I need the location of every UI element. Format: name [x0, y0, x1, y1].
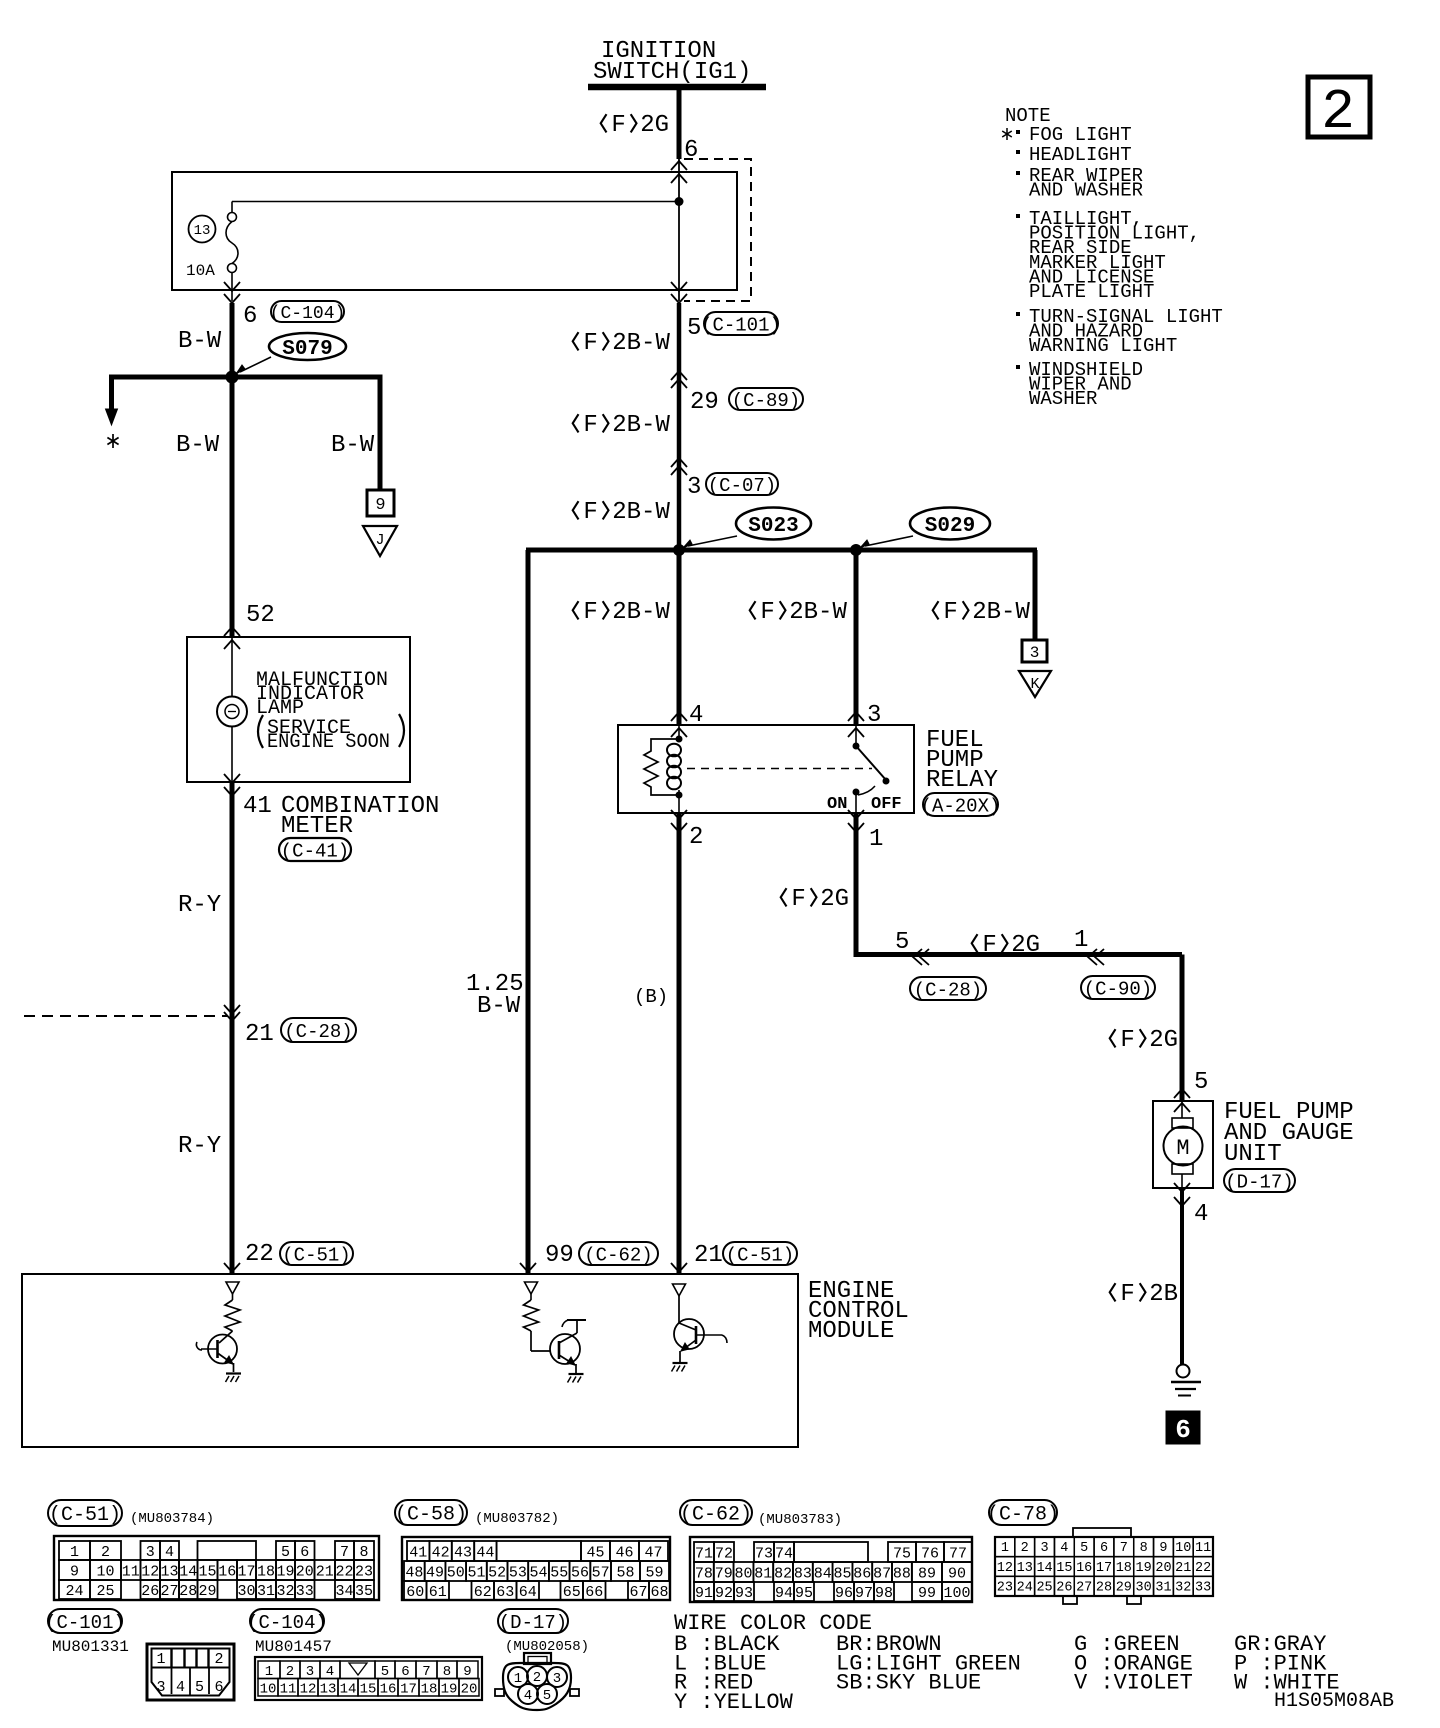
- svg-text:54: 54: [530, 1564, 548, 1581]
- svg-text:WARNING LIGHT: WARNING LIGHT: [1029, 335, 1177, 357]
- svg-text:12: 12: [300, 1681, 317, 1697]
- svg-text:5: 5: [1194, 1069, 1208, 1096]
- svg-text:57: 57: [592, 1564, 610, 1581]
- svg-text:5: 5: [543, 1688, 551, 1704]
- svg-text:22: 22: [245, 1241, 274, 1268]
- svg-text:15: 15: [198, 1563, 216, 1580]
- svg-text:F: F: [583, 499, 597, 526]
- svg-text:3: 3: [1030, 644, 1040, 662]
- svg-text:F: F: [791, 886, 805, 913]
- svg-text:5: 5: [895, 929, 909, 956]
- svg-text:1: 1: [1074, 927, 1088, 954]
- svg-text:B-W: B-W: [477, 993, 521, 1020]
- svg-text:20: 20: [461, 1681, 478, 1697]
- svg-text:ON: ON: [827, 795, 847, 814]
- svg-text:15: 15: [1056, 1561, 1072, 1576]
- svg-text:5: 5: [195, 1679, 204, 1696]
- svg-text:23: 23: [997, 1581, 1013, 1596]
- svg-text:71: 71: [695, 1545, 713, 1562]
- svg-text:2B-W: 2B-W: [972, 599, 1030, 626]
- svg-text:21: 21: [1175, 1561, 1191, 1576]
- svg-text:62: 62: [474, 1584, 492, 1601]
- svg-text:F: F: [611, 112, 625, 139]
- svg-text:2: 2: [1021, 1541, 1029, 1556]
- svg-text:67: 67: [629, 1584, 647, 1601]
- svg-text:99: 99: [545, 1242, 574, 1269]
- svg-text:42: 42: [432, 1544, 450, 1561]
- svg-text:91: 91: [695, 1585, 713, 1602]
- svg-text:AND WASHER: AND WASHER: [1029, 180, 1143, 202]
- svg-text:(C-90): (C-90): [1084, 978, 1152, 1000]
- svg-text:25: 25: [1036, 1581, 1052, 1596]
- svg-text:15: 15: [360, 1681, 377, 1697]
- svg-text:99: 99: [918, 1585, 936, 1602]
- svg-text:3: 3: [687, 474, 701, 501]
- svg-text:10: 10: [96, 1563, 114, 1580]
- svg-text:31: 31: [1155, 1581, 1171, 1596]
- svg-text:65: 65: [563, 1584, 581, 1601]
- svg-text:R-Y: R-Y: [178, 1133, 221, 1160]
- svg-text:(C-58): (C-58): [395, 1504, 467, 1527]
- svg-text:32: 32: [276, 1583, 294, 1600]
- svg-text:10: 10: [1175, 1541, 1191, 1556]
- svg-text:19: 19: [276, 1563, 294, 1580]
- svg-text:(MU803782): (MU803782): [475, 1511, 559, 1527]
- svg-text:(C-101): (C-101): [45, 1612, 125, 1634]
- svg-text:27: 27: [1076, 1581, 1092, 1596]
- svg-text:33: 33: [1195, 1581, 1211, 1596]
- svg-text:96: 96: [835, 1585, 853, 1602]
- svg-text:18: 18: [421, 1681, 438, 1697]
- svg-text:10: 10: [260, 1681, 277, 1697]
- svg-text:2: 2: [1321, 80, 1355, 144]
- svg-text:(MU803783): (MU803783): [758, 1512, 842, 1528]
- svg-text:2G: 2G: [1011, 932, 1040, 959]
- svg-text:11: 11: [1195, 1541, 1211, 1556]
- svg-text:30: 30: [1136, 1581, 1152, 1596]
- svg-text:SB:SKY BLUE: SB:SKY BLUE: [836, 1671, 981, 1696]
- svg-text:6: 6: [1100, 1541, 1108, 1556]
- svg-text:F: F: [760, 599, 774, 626]
- svg-text:OFF: OFF: [871, 795, 902, 814]
- svg-text:FOG LIGHT: FOG LIGHT: [1029, 124, 1132, 146]
- svg-text:6: 6: [1175, 1415, 1191, 1445]
- svg-text:97: 97: [855, 1585, 873, 1602]
- svg-text:48: 48: [405, 1564, 423, 1581]
- svg-text:68: 68: [650, 1584, 668, 1601]
- svg-text:28: 28: [179, 1583, 197, 1600]
- svg-text:14: 14: [1036, 1561, 1052, 1576]
- svg-text:14: 14: [179, 1563, 197, 1580]
- svg-text:90: 90: [948, 1565, 966, 1582]
- svg-text:1: 1: [514, 1671, 522, 1687]
- svg-text:4: 4: [176, 1679, 185, 1696]
- svg-text:59: 59: [645, 1564, 663, 1581]
- svg-text:2: 2: [286, 1664, 294, 1680]
- svg-text:3: 3: [156, 1679, 165, 1696]
- svg-text:2: 2: [101, 1544, 110, 1561]
- svg-text:80: 80: [734, 1565, 752, 1582]
- svg-text:13: 13: [1017, 1561, 1033, 1576]
- svg-text:9: 9: [463, 1664, 471, 1680]
- svg-text:(C-62): (C-62): [584, 1244, 652, 1266]
- svg-text:23: 23: [355, 1563, 373, 1580]
- svg-text:S023: S023: [748, 515, 798, 538]
- svg-text:92: 92: [715, 1585, 733, 1602]
- svg-text:46: 46: [615, 1544, 633, 1561]
- svg-text:3: 3: [1040, 1541, 1048, 1556]
- svg-text:22: 22: [335, 1563, 353, 1580]
- svg-text:7: 7: [422, 1664, 430, 1680]
- svg-text:B-W: B-W: [331, 432, 375, 459]
- svg-text:29: 29: [690, 389, 719, 416]
- svg-text:87: 87: [873, 1565, 891, 1582]
- svg-text:(C-101): (C-101): [701, 314, 781, 336]
- svg-text:8: 8: [359, 1544, 368, 1561]
- svg-text:11: 11: [280, 1681, 297, 1697]
- svg-text:18: 18: [257, 1563, 275, 1580]
- svg-text:F: F: [982, 932, 996, 959]
- svg-text:56: 56: [571, 1564, 589, 1581]
- svg-text:77: 77: [949, 1545, 967, 1562]
- svg-text:52: 52: [246, 602, 275, 629]
- svg-text:33: 33: [296, 1583, 314, 1600]
- svg-text:(D-17): (D-17): [1225, 1171, 1293, 1193]
- svg-text:F: F: [583, 330, 597, 357]
- svg-text:METER: METER: [281, 813, 353, 840]
- svg-text:24: 24: [65, 1583, 83, 1600]
- svg-text:47: 47: [644, 1544, 662, 1561]
- svg-text:MU801331: MU801331: [52, 1638, 129, 1656]
- svg-text:(C-41): (C-41): [281, 840, 349, 862]
- svg-text:8: 8: [443, 1664, 451, 1680]
- svg-text:27: 27: [160, 1583, 178, 1600]
- svg-text:21: 21: [316, 1563, 334, 1580]
- svg-text:41: 41: [409, 1544, 427, 1561]
- svg-text:12: 12: [997, 1561, 1013, 1576]
- svg-text:V :VIOLET: V :VIOLET: [1074, 1671, 1193, 1696]
- svg-text:(C-28): (C-28): [914, 979, 982, 1001]
- svg-text:19: 19: [1136, 1561, 1152, 1576]
- svg-text:2G: 2G: [820, 886, 849, 913]
- svg-text:6: 6: [300, 1544, 309, 1561]
- svg-text:S079: S079: [282, 338, 332, 361]
- svg-text:45: 45: [586, 1544, 604, 1561]
- svg-text:2B-W: 2B-W: [612, 330, 670, 357]
- svg-text:17: 17: [237, 1563, 255, 1580]
- svg-text:4: 4: [326, 1664, 334, 1680]
- svg-text:10A: 10A: [186, 262, 215, 280]
- svg-text:20: 20: [296, 1563, 314, 1580]
- svg-text:2B: 2B: [1149, 1281, 1178, 1308]
- svg-text:4: 4: [1060, 1541, 1068, 1556]
- svg-text:86: 86: [853, 1565, 871, 1582]
- svg-text:2G: 2G: [1149, 1027, 1178, 1054]
- svg-text:1: 1: [70, 1544, 79, 1561]
- svg-text:H1S05M08AB: H1S05M08AB: [1274, 1690, 1394, 1713]
- svg-text:(C-51): (C-51): [282, 1244, 350, 1266]
- svg-text:6: 6: [214, 1679, 223, 1696]
- svg-text:25: 25: [96, 1583, 114, 1600]
- svg-text:3: 3: [146, 1544, 155, 1561]
- svg-text:14: 14: [340, 1681, 357, 1697]
- svg-text:(C-104): (C-104): [270, 304, 346, 324]
- svg-text:31: 31: [257, 1583, 275, 1600]
- svg-text:2B-W: 2B-W: [612, 499, 670, 526]
- svg-text:PLATE LIGHT: PLATE LIGHT: [1029, 281, 1154, 303]
- svg-text:51: 51: [467, 1564, 485, 1581]
- svg-text:2: 2: [214, 1651, 223, 1668]
- svg-text:41: 41: [243, 793, 272, 820]
- svg-text:78: 78: [695, 1565, 713, 1582]
- svg-text:Y :YELLOW: Y :YELLOW: [674, 1690, 794, 1715]
- svg-text:4: 4: [165, 1544, 174, 1561]
- svg-text:5: 5: [381, 1664, 389, 1680]
- svg-text:3: 3: [553, 1671, 561, 1687]
- svg-text:HEADLIGHT: HEADLIGHT: [1029, 144, 1132, 166]
- svg-text:73: 73: [755, 1545, 773, 1562]
- svg-text:(C-89): (C-89): [732, 390, 800, 412]
- svg-text:60: 60: [406, 1584, 424, 1601]
- svg-text:35: 35: [355, 1583, 373, 1600]
- svg-text:84: 84: [814, 1565, 832, 1582]
- svg-text:5: 5: [687, 315, 701, 342]
- svg-text:2: 2: [689, 824, 703, 851]
- svg-text:85: 85: [833, 1565, 851, 1582]
- svg-text:52: 52: [488, 1564, 506, 1581]
- svg-text:(D-17): (D-17): [499, 1612, 567, 1634]
- svg-text:F: F: [1120, 1281, 1134, 1308]
- svg-text:61: 61: [429, 1584, 447, 1601]
- svg-text:2B-W: 2B-W: [612, 412, 670, 439]
- svg-text:13: 13: [320, 1681, 337, 1697]
- svg-text:(C-78): (C-78): [987, 1504, 1059, 1527]
- svg-text:55: 55: [550, 1564, 568, 1581]
- svg-text:S029: S029: [925, 515, 975, 538]
- svg-text:(C-104): (C-104): [247, 1612, 327, 1634]
- svg-text:94: 94: [775, 1585, 793, 1602]
- svg-text:79: 79: [715, 1565, 733, 1582]
- svg-text:13: 13: [194, 223, 211, 239]
- svg-text:(C-62): (C-62): [680, 1504, 752, 1527]
- svg-text:J: J: [375, 532, 384, 549]
- svg-text:49: 49: [426, 1564, 444, 1581]
- svg-text:B-W: B-W: [178, 328, 222, 355]
- svg-text:2G: 2G: [640, 112, 669, 139]
- svg-text:74: 74: [775, 1545, 793, 1562]
- svg-text:8: 8: [1140, 1541, 1148, 1556]
- svg-text:95: 95: [795, 1585, 813, 1602]
- svg-text:F: F: [943, 599, 957, 626]
- svg-text:2: 2: [533, 1670, 541, 1686]
- svg-text:5: 5: [281, 1544, 290, 1561]
- svg-text:MU801457: MU801457: [255, 1638, 332, 1656]
- svg-text:1: 1: [869, 826, 883, 853]
- svg-text:4: 4: [524, 1688, 532, 1704]
- svg-text:(C-28): (C-28): [284, 1021, 352, 1043]
- svg-text:(MU803784): (MU803784): [130, 1511, 214, 1527]
- svg-text:13: 13: [160, 1563, 178, 1580]
- svg-text:(C-07): (C-07): [708, 475, 776, 497]
- svg-text:20: 20: [1155, 1561, 1171, 1576]
- svg-text:(C-51): (C-51): [726, 1244, 794, 1266]
- svg-text:76: 76: [921, 1545, 939, 1562]
- svg-text:26: 26: [141, 1583, 159, 1600]
- svg-text:34: 34: [335, 1583, 353, 1600]
- svg-text:16: 16: [218, 1563, 236, 1580]
- svg-text:11: 11: [122, 1563, 140, 1580]
- svg-text:K: K: [1030, 676, 1039, 693]
- svg-text:R-Y: R-Y: [178, 892, 221, 919]
- svg-text:58: 58: [616, 1564, 634, 1581]
- svg-text:26: 26: [1056, 1581, 1072, 1596]
- svg-text:21: 21: [245, 1021, 274, 1048]
- svg-text:22: 22: [1195, 1561, 1211, 1576]
- svg-text:9: 9: [70, 1563, 79, 1580]
- svg-text:83: 83: [794, 1565, 812, 1582]
- svg-text:72: 72: [715, 1545, 733, 1562]
- svg-text:82: 82: [774, 1565, 792, 1582]
- svg-text:F: F: [583, 412, 597, 439]
- svg-text:2B-W: 2B-W: [789, 599, 847, 626]
- svg-text:F: F: [583, 599, 597, 626]
- svg-text:81: 81: [754, 1565, 772, 1582]
- svg-text:98: 98: [875, 1585, 893, 1602]
- svg-text:(C-51): (C-51): [49, 1504, 121, 1527]
- svg-text:75: 75: [893, 1545, 911, 1562]
- svg-text:66: 66: [585, 1584, 603, 1601]
- svg-text:9: 9: [1159, 1541, 1167, 1556]
- svg-text:100: 100: [943, 1585, 970, 1602]
- svg-text:SWITCH(IG1): SWITCH(IG1): [593, 59, 751, 86]
- svg-text:M: M: [1176, 1136, 1189, 1161]
- svg-text:16: 16: [1076, 1561, 1092, 1576]
- svg-text:88: 88: [893, 1565, 911, 1582]
- svg-text:18: 18: [1116, 1561, 1132, 1576]
- svg-text:WASHER: WASHER: [1029, 388, 1097, 410]
- svg-text:16: 16: [380, 1681, 397, 1697]
- svg-text:RELAY: RELAY: [926, 767, 998, 794]
- svg-text:1: 1: [156, 1651, 165, 1668]
- svg-text:(A-20X): (A-20X): [921, 795, 1001, 817]
- svg-text:19: 19: [441, 1681, 458, 1697]
- svg-text:28: 28: [1096, 1581, 1112, 1596]
- svg-text:6: 6: [401, 1664, 409, 1680]
- svg-text:7: 7: [1120, 1541, 1128, 1556]
- svg-text:MODULE: MODULE: [808, 1318, 894, 1345]
- svg-text:1: 1: [1001, 1541, 1009, 1556]
- svg-text:32: 32: [1175, 1581, 1191, 1596]
- svg-text:1: 1: [265, 1664, 273, 1680]
- svg-text:5: 5: [1080, 1541, 1088, 1556]
- svg-text:B-W: B-W: [176, 432, 220, 459]
- svg-text:64: 64: [519, 1584, 537, 1601]
- svg-text:4: 4: [1194, 1201, 1208, 1228]
- svg-text:9: 9: [375, 496, 385, 515]
- svg-text:29: 29: [198, 1583, 216, 1600]
- svg-text:UNIT: UNIT: [1224, 1141, 1282, 1168]
- svg-text:12: 12: [141, 1563, 159, 1580]
- svg-text:93: 93: [735, 1585, 753, 1602]
- svg-text:ENGINE SOON: ENGINE SOON: [267, 731, 390, 754]
- svg-text:2B-W: 2B-W: [612, 599, 670, 626]
- svg-text:17: 17: [1096, 1561, 1112, 1576]
- svg-text:21: 21: [694, 1242, 723, 1269]
- svg-text:53: 53: [509, 1564, 527, 1581]
- svg-text:43: 43: [454, 1544, 472, 1561]
- svg-text:17: 17: [400, 1681, 417, 1697]
- svg-text:24: 24: [1017, 1581, 1033, 1596]
- svg-text:30: 30: [237, 1583, 255, 1600]
- svg-text:63: 63: [496, 1584, 514, 1601]
- svg-text:(B): (B): [634, 986, 668, 1008]
- svg-text:29: 29: [1116, 1581, 1132, 1596]
- svg-text:44: 44: [476, 1544, 494, 1561]
- svg-text:50: 50: [447, 1564, 465, 1581]
- svg-text:6: 6: [243, 303, 257, 330]
- svg-text:89: 89: [918, 1565, 936, 1582]
- svg-text:3: 3: [306, 1664, 314, 1680]
- svg-text:F: F: [1120, 1027, 1134, 1054]
- svg-text:7: 7: [340, 1544, 349, 1561]
